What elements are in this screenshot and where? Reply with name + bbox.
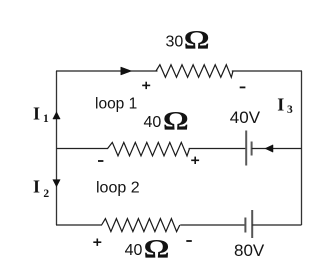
wire: bottom side between resistor and battery [180,224,245,226]
svg-text:I: I [33,104,40,124]
svg-text:1: 1 [43,113,49,125]
svg-text:Ω: Ω [184,26,210,55]
wire: top side right segment [232,70,302,72]
label: loop 2 [96,179,140,196]
label: 40V battery value [230,108,261,127]
wire: middle branch left segment [57,148,109,150]
svg-text:80V: 80V [234,241,265,260]
polarity + (top resistor left) [142,82,150,89]
label: 30 ohm value of R1 [166,26,210,55]
wire: left rail [56,71,58,225]
resistor R1 30ohm [156,65,233,78]
battery B2 80V: short plate (negative) [244,218,246,233]
label: current I2 [33,177,49,200]
wire: right rail [301,71,303,225]
resistor R2 40ohm (middle) [108,142,190,156]
wire: middle branch right segment [252,148,302,150]
label: 80V battery value [234,241,265,260]
svg-text:40V: 40V [230,108,261,127]
polarity - (bottom resistor right) [186,240,192,242]
svg-text:Ω: Ω [144,235,170,264]
polarity + (bottom resistor left) [93,239,101,246]
svg-text:30: 30 [166,33,184,50]
battery B1 40V: short plate (negative) [251,142,253,156]
wire: bottom side left segment [56,224,102,226]
svg-text:3: 3 [287,104,293,116]
current direction arrow on top wire [121,67,132,75]
svg-text:2: 2 [43,188,49,200]
wire: top side left segment [56,70,158,72]
svg-text:Ω: Ω [163,107,189,136]
label: loop 1 [95,95,137,112]
label: current I1 [33,104,49,126]
svg-text:I: I [33,177,40,197]
arrow: I1 direction (up) on left rail [53,112,60,119]
svg-text:loop 1: loop 1 [95,95,137,112]
battery B2 80V: long plate (positive) [251,210,253,238]
wire: bottom side right segment [252,224,301,226]
arrow: I2 direction (down) on left rail [53,180,60,187]
polarity + (middle resistor right) [191,157,199,164]
polarity - (top resistor right) [240,86,246,88]
label: 40 ohm value of R2 [144,107,189,136]
svg-text:40: 40 [144,114,162,131]
svg-text:loop 2: loop 2 [96,179,140,196]
arrow: current into battery (points left) [265,145,273,152]
wire: middle branch between resistor and battery [189,148,246,150]
battery B1 40V: long plate (positive) [245,131,247,166]
label: current I3 [277,95,293,117]
svg-text:40: 40 [125,242,143,259]
resistor R3 40ohm (bottom) [102,219,180,232]
svg-text:I: I [277,95,284,115]
label: 40 ohm value of R3 [125,235,170,264]
polarity - (middle resistor left) [98,160,103,162]
